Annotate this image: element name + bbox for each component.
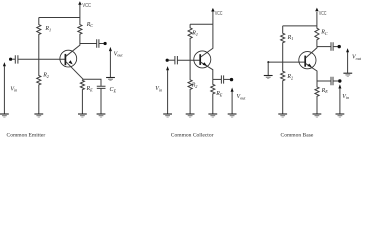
transistor Q1 base bar C1 <box>64 54 66 65</box>
Vout line C2 <box>231 91 233 113</box>
wire cap to node C3 <box>333 80 338 82</box>
Vin source C3 arrow <box>338 84 341 88</box>
transistor Q1 emitter C1 <box>66 62 83 79</box>
svg-text:Vin: Vin <box>342 94 349 100</box>
ground R2 C2 <box>186 114 195 117</box>
transistor Q2 emitter arrow C2 <box>203 62 207 65</box>
resistor R1 C2 <box>188 24 192 60</box>
output node dot C1 <box>104 42 107 45</box>
emitter input wire C3 <box>317 80 331 82</box>
svg-text:Vout: Vout <box>114 51 124 57</box>
ground base C3 <box>264 76 273 79</box>
transistor Q3 emitter arrow C3 <box>307 64 311 67</box>
resistor R1 C3 <box>281 26 285 62</box>
Vin source line C1 <box>3 66 5 114</box>
transistor Q1 circle C1 <box>60 50 77 67</box>
Vout line C1 <box>109 51 111 78</box>
base ground lead C3 <box>267 62 269 75</box>
Vout C3 arrow <box>346 48 349 52</box>
input node dot C1 <box>9 58 12 61</box>
svg-text:RE: RE <box>321 88 329 94</box>
svg-text:VCC: VCC <box>319 11 327 17</box>
Vin source line C2 <box>167 70 169 114</box>
VCC supply line C3 <box>316 12 318 26</box>
resistor RC C3 <box>315 26 319 47</box>
transistor Q3 collector C3 <box>306 47 317 58</box>
collector output wire C1 <box>80 43 97 45</box>
ground R2 C1 <box>34 114 43 117</box>
wire cap to node C3 <box>333 46 338 48</box>
svg-text:RE: RE <box>215 91 223 97</box>
transistor Q3 circle C3 <box>299 52 316 69</box>
ground RE C2 <box>208 114 217 117</box>
wire node to cap C1 <box>12 58 15 60</box>
wire cap to node C2 <box>224 78 230 80</box>
svg-text:Vin: Vin <box>10 86 17 92</box>
VCC arrow C2 <box>211 8 214 12</box>
bypass capacitor CE C1 <box>97 86 106 88</box>
svg-text:R1: R1 <box>191 31 198 37</box>
svg-text:Vout: Vout <box>237 94 247 100</box>
output capacitor C3 <box>331 42 333 51</box>
ground CE C1 <box>97 114 106 117</box>
svg-text:R2: R2 <box>42 73 49 79</box>
supply rail wire C1 <box>39 17 80 19</box>
svg-text:CE: CE <box>110 87 117 93</box>
VCC arrow C1 <box>78 1 81 5</box>
supply rail wire C3 <box>283 25 317 27</box>
transistor Q3 base bar C3 <box>304 56 306 67</box>
svg-text:Common Emitter: Common Emitter <box>7 132 46 138</box>
resistor RE C3 <box>315 81 319 114</box>
output node dot C2 <box>230 78 233 81</box>
ground RE C3 <box>313 114 322 117</box>
svg-text:Vout: Vout <box>352 55 362 61</box>
output capacitor C1 <box>97 39 99 48</box>
base wire C3 <box>268 61 305 63</box>
svg-text:R2: R2 <box>191 82 198 88</box>
ground Vin C2 <box>163 114 172 117</box>
base wire C2 <box>177 59 200 61</box>
transistor Q1 collector C1 <box>66 44 80 57</box>
ground RE C1 <box>78 114 87 117</box>
Vout line C3 <box>347 52 349 73</box>
ground Vout C1 <box>106 78 115 81</box>
supply rail wire C2 <box>190 23 213 25</box>
ground Vin C1 <box>0 114 9 117</box>
input capacitor C1 <box>15 55 18 63</box>
transistor Q2 emitter C2 <box>201 62 213 79</box>
Vout C2 arrow <box>231 88 234 92</box>
Vin source C2 arrow <box>166 66 169 70</box>
resistor RE C2 <box>211 79 215 113</box>
input capacitor C3 <box>331 77 333 86</box>
Vin source line C3 <box>339 88 341 114</box>
CE to ground wire C1 <box>100 88 102 113</box>
collector output wire C3 <box>317 46 331 48</box>
input node dot C3 <box>338 79 341 82</box>
svg-text:Common Collector: Common Collector <box>171 132 214 138</box>
svg-text:Common Base: Common Base <box>281 132 314 138</box>
wire node to cap C2 <box>169 59 175 61</box>
transistor Q2 base bar C2 <box>199 54 201 65</box>
ground Vout C3 <box>343 73 352 76</box>
base wire C1 <box>18 58 65 60</box>
Vout C1 arrow <box>109 47 112 51</box>
svg-text:VCC: VCC <box>82 3 91 9</box>
resistor R1 C1 <box>37 18 41 60</box>
VCC supply line C1 <box>79 4 81 18</box>
Vin source C1 arrow <box>3 62 6 66</box>
svg-text:R1: R1 <box>287 35 294 41</box>
output node dot C3 <box>338 45 341 48</box>
emitter bypass wire C1 <box>83 79 101 86</box>
ground Vin C3 <box>336 114 345 117</box>
svg-text:RC: RC <box>320 30 328 36</box>
ground Vout C2 <box>228 114 237 117</box>
transistor Q1 emitter arrow C1 <box>69 60 73 64</box>
ground R2 C3 <box>278 114 287 117</box>
emitter output wire C2 <box>213 78 222 80</box>
svg-text:VCC: VCC <box>215 11 223 17</box>
svg-text:RC: RC <box>86 22 94 28</box>
transistor Q2 circle C2 <box>194 51 211 68</box>
svg-text:RE: RE <box>86 86 94 92</box>
svg-text:R1: R1 <box>44 26 51 32</box>
wire cap to node C1 <box>99 43 104 45</box>
transistor Q3 emitter C3 <box>306 64 317 81</box>
resistor R2 C1 <box>37 59 41 114</box>
svg-text:Vin: Vin <box>155 86 162 92</box>
output capacitor C2 <box>221 75 223 83</box>
svg-text:R2: R2 <box>286 74 293 80</box>
VCC supply line C2 <box>212 11 214 24</box>
input capacitor C2 <box>175 56 178 64</box>
resistor RC C1 <box>78 18 82 44</box>
resistor R2 C3 <box>281 62 285 114</box>
base corner dot C3 <box>267 61 269 63</box>
input node dot C2 <box>166 59 169 62</box>
transistor Q2 collector C2 <box>201 24 213 57</box>
VCC arrow C3 <box>315 8 318 12</box>
resistor RE C1 <box>80 79 84 114</box>
resistor R2 C2 <box>188 60 192 114</box>
